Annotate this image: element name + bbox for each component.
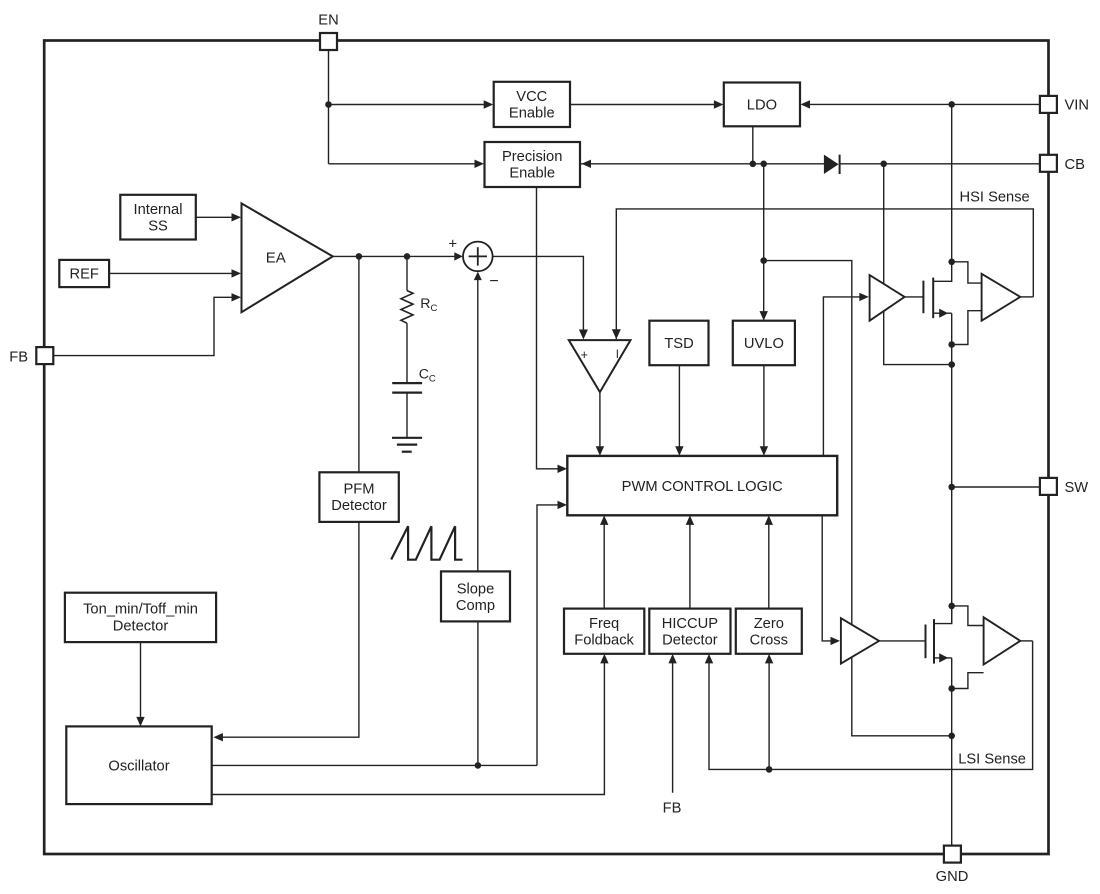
- svg-text:Oscillator: Oscillator: [108, 759, 169, 775]
- wire Rc to Cc: [406, 323, 408, 383]
- wire EN to Precision Enable: [329, 163, 477, 165]
- wire Freq Foldback to PWM logic: [603, 523, 605, 609]
- node CB junction: [880, 161, 887, 168]
- wire HSI Sense: [616, 209, 1033, 339]
- wire EA output to PFM Detector: [358, 256, 360, 472]
- svg-text:Ton_min/Toff_min: Ton_min/Toff_min: [83, 601, 198, 617]
- svg-text:SS: SS: [148, 219, 168, 235]
- wire Slope Comp to oscillator rail: [477, 621, 479, 765]
- wire EN vertical: [328, 50, 330, 164]
- svg-text:C: C: [429, 373, 436, 384]
- pin FB: [36, 347, 53, 364]
- block HICCUP Detector: [649, 609, 730, 654]
- svg-text:Foldback: Foldback: [574, 632, 634, 648]
- wire HS drain to sense amp: [952, 262, 982, 283]
- wire LS gate: [879, 640, 925, 642]
- wire VIN to LDO: [808, 103, 1040, 105]
- svg-text:Comp: Comp: [456, 598, 495, 614]
- wire HS drain: [933, 262, 952, 282]
- summing junction: [463, 242, 493, 272]
- transistor LS FET gate bar: [925, 625, 927, 659]
- driver LS: [841, 618, 879, 663]
- block Oscillator: [66, 726, 211, 804]
- wire Cc to ground: [406, 393, 408, 438]
- transistor HS FET channel bar: [932, 278, 934, 319]
- node LS drain: [948, 603, 955, 610]
- node LSI to Zero Cross: [766, 766, 773, 773]
- svg-text:Zero: Zero: [754, 616, 784, 632]
- svg-text:R: R: [420, 296, 430, 312]
- pin VIN: [1040, 96, 1057, 113]
- node LS source: [948, 685, 955, 692]
- block UVLO: [733, 321, 795, 366]
- svg-text:+: +: [448, 235, 457, 252]
- wire Oscillator to Freq Foldback: [212, 662, 605, 795]
- wire SW to pin: [952, 486, 1041, 488]
- block VCC Enable: [494, 82, 570, 127]
- node EA output to compensation: [404, 253, 411, 260]
- pin GND: [944, 846, 961, 863]
- svg-text:+: +: [581, 348, 588, 362]
- node VCC junction: [760, 161, 767, 168]
- svg-text:TSD: TSD: [664, 336, 693, 352]
- wire FB to EA: [54, 297, 234, 355]
- block PWM CONTROL LOGIC: [567, 456, 837, 515]
- wire HICCUP to PWM logic: [689, 523, 691, 609]
- svg-text:VCC: VCC: [516, 89, 547, 105]
- pin SW: [1040, 478, 1057, 495]
- wire LSI Sense: [709, 641, 1033, 770]
- block LDO: [724, 83, 800, 127]
- svg-text:Slope: Slope: [457, 581, 495, 597]
- wire REF to EA: [109, 272, 234, 274]
- svg-text:FB: FB: [9, 349, 28, 365]
- block Ton_min/Toff_min Detector: [65, 593, 216, 642]
- svg-text:Detector: Detector: [113, 618, 169, 634]
- svg-text:HSI Sense: HSI Sense: [960, 190, 1030, 206]
- wire EN to VCC Enable: [329, 104, 486, 106]
- wire Oscillator to PWM logic: [537, 505, 560, 766]
- svg-text:GND: GND: [936, 869, 969, 885]
- block REF: [59, 260, 109, 287]
- wire LS source to sense amp: [952, 673, 984, 689]
- svg-text:UVLO: UVLO: [744, 336, 784, 352]
- svg-text:EN: EN: [318, 13, 338, 29]
- svg-text:I: I: [616, 349, 619, 361]
- block Freq Foldback: [564, 609, 644, 654]
- node SW branch: [948, 484, 955, 491]
- sawtooth waveform: [391, 526, 462, 560]
- block Slope Comp: [441, 571, 510, 621]
- wire VIN down to high-side FET drain: [951, 104, 953, 261]
- svg-text:REF: REF: [70, 266, 99, 282]
- wire slope comp to summing: [477, 279, 479, 571]
- transistor HS FET gate bar: [922, 281, 924, 314]
- wire VCC branch to low-side source: [764, 261, 950, 736]
- node slope tap: [475, 762, 482, 769]
- svg-text:HICCUP: HICCUP: [662, 616, 719, 632]
- wire to Rc: [406, 256, 408, 290]
- wire Internal SS to EA: [196, 216, 234, 218]
- svg-text:Cross: Cross: [750, 632, 788, 648]
- wire FB to HICCUP: [672, 662, 674, 793]
- svg-text:Detector: Detector: [662, 632, 718, 648]
- wire PWM logic to LS driver: [822, 515, 832, 641]
- wire TSD to PWM logic: [678, 365, 680, 448]
- svg-text:LSI Sense: LSI Sense: [958, 751, 1026, 767]
- wire VCC Enable to LDO: [570, 104, 716, 106]
- node CB to SW junction: [948, 361, 955, 368]
- wire CB rail: [581, 163, 825, 165]
- wire EA output: [333, 255, 456, 257]
- svg-text:C: C: [431, 303, 438, 314]
- node VCC branch: [760, 257, 767, 264]
- amplifier LSI sense: [984, 617, 1021, 664]
- node EN junction: [325, 101, 332, 108]
- wire Oscillator ramp output: [212, 764, 537, 766]
- ground: [392, 437, 422, 439]
- wire LSI amp output: [1020, 640, 1032, 642]
- node HS source: [948, 341, 955, 348]
- svg-text:SW: SW: [1065, 480, 1089, 496]
- svg-text:Enable: Enable: [509, 106, 555, 122]
- pin EN: [320, 33, 337, 50]
- wire SW column upper: [951, 345, 953, 624]
- svg-text:EA: EA: [266, 250, 286, 267]
- amplifier HSI sense: [982, 274, 1021, 321]
- svg-text:−: −: [489, 273, 498, 290]
- svg-text:CB: CB: [1065, 157, 1086, 173]
- svg-text:PWM CONTROL LOGIC: PWM CONTROL LOGIC: [622, 479, 783, 495]
- wire CB down to switch node: [884, 164, 950, 365]
- wire PWM logic to HS driver: [823, 297, 861, 456]
- svg-text:VIN: VIN: [1065, 98, 1089, 114]
- node LDO junction: [750, 161, 757, 168]
- diode bootstrap: [824, 155, 839, 174]
- block PFM Detector: [319, 472, 398, 522]
- capacitor Cc: [392, 382, 422, 384]
- wire LSI to Zero Cross: [768, 662, 770, 770]
- node LSI junction on SW column: [948, 733, 955, 740]
- wire Precision Enable to PWM logic: [537, 187, 560, 469]
- wire UVLO to PWM logic: [763, 365, 765, 448]
- block Precision Enable: [485, 142, 581, 187]
- driver HS: [870, 275, 905, 321]
- svg-text:Freq: Freq: [589, 616, 619, 632]
- wire LS source: [934, 657, 952, 659]
- wire HS source: [933, 312, 952, 314]
- svg-text:Internal: Internal: [134, 202, 183, 218]
- wire HS gate: [905, 296, 923, 298]
- resistor Rc: [401, 291, 413, 324]
- wire comparator to PWM logic: [599, 392, 601, 448]
- block Internal SS: [120, 195, 196, 240]
- svg-text:C: C: [419, 366, 429, 382]
- wire PFM Detector to Oscillator: [221, 522, 359, 737]
- pin CB: [1040, 155, 1057, 172]
- comparator PWM: [569, 340, 631, 392]
- svg-text:Detector: Detector: [331, 498, 387, 514]
- wire Zero Cross to PWM logic: [768, 523, 770, 609]
- wire LDO output down: [752, 126, 754, 164]
- wire HSI amp output: [1020, 296, 1033, 298]
- wire LS drain to sense amp: [952, 606, 984, 626]
- svg-text:Enable: Enable: [509, 166, 555, 182]
- block Zero Cross: [736, 609, 802, 654]
- wire LS drain: [934, 606, 952, 624]
- wire LS source to GND pin: [951, 689, 953, 846]
- svg-text:PFM: PFM: [343, 482, 374, 498]
- wire summing to comparator plus: [493, 256, 584, 331]
- op-amp EA: [242, 203, 333, 312]
- node EA output to PFM: [356, 253, 363, 260]
- svg-text:LDO: LDO: [747, 97, 777, 113]
- wire HS source to sense amp: [952, 311, 982, 345]
- wire Ton detector to Oscillator: [140, 642, 142, 719]
- block TSD: [649, 321, 708, 366]
- node HS drain: [948, 259, 955, 266]
- svg-text:FB: FB: [663, 801, 682, 817]
- node VIN branch: [948, 101, 955, 108]
- svg-text:Precision: Precision: [502, 149, 562, 165]
- transistor LS FET channel bar: [933, 619, 935, 664]
- wire VCC to UVLO: [763, 164, 765, 313]
